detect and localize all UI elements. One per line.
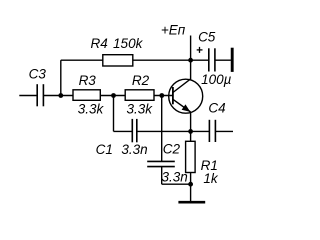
- wire C1 to node E (crosses base drop): [137, 130, 191, 132]
- wire C2 to node F: [162, 183, 191, 185]
- svg-text:1k: 1k: [203, 171, 219, 186]
- node D junction dot: [159, 93, 164, 98]
- wire input lead: [19, 95, 37, 97]
- svg-text:R4: R4: [90, 36, 107, 51]
- ground: [178, 201, 205, 204]
- wire C3 to node A and R3: [43, 95, 73, 97]
- wire collector to node B: [190, 60, 192, 79]
- wire R4 to node B: [133, 59, 191, 61]
- resistor R3: [73, 90, 100, 101]
- capacitor C4: [209, 120, 215, 142]
- node F junction dot: [188, 182, 193, 187]
- node B junction dot: [188, 58, 193, 63]
- resistor R4: [103, 55, 133, 66]
- wire C4 output lead: [215, 130, 233, 132]
- wire node F to ground: [190, 184, 192, 201]
- wire node B to C5: [191, 59, 209, 61]
- svg-text:3.3k: 3.3k: [78, 101, 105, 116]
- wire node A up to feedback rail: [60, 60, 62, 95]
- wire C5 to terminal bar: [215, 59, 231, 61]
- svg-text:3.3n: 3.3n: [161, 169, 187, 184]
- svg-text:150k: 150k: [113, 36, 144, 51]
- svg-text:C4: C4: [208, 101, 225, 116]
- svg-text:R3: R3: [79, 73, 97, 88]
- terminal bar at C5 output: [231, 48, 234, 72]
- svg-text:3.3n: 3.3n: [121, 142, 147, 157]
- wire C2 bottom down: [161, 167, 163, 185]
- wire rail to R4: [61, 59, 103, 61]
- wire node E to C4: [191, 130, 210, 132]
- transistor VT1: [169, 79, 203, 113]
- wire R3 to node C: [100, 95, 125, 97]
- wire to C1: [114, 130, 133, 132]
- svg-text:3.3k: 3.3k: [127, 101, 154, 116]
- capacitor C5: [209, 48, 215, 71]
- wire emitter to node E: [190, 112, 192, 131]
- wire node D down to C2: [161, 96, 163, 162]
- svg-text:C1: C1: [96, 142, 113, 157]
- svg-text:C3: C3: [29, 66, 47, 81]
- node E junction dot: [188, 129, 193, 134]
- svg-text:+Eп: +Eп: [161, 23, 186, 38]
- capacitor C2: [147, 161, 175, 166]
- resistor R2: [125, 90, 154, 101]
- svg-text:C2: C2: [163, 142, 181, 157]
- wire R1 to node F: [190, 173, 192, 185]
- capacitor C1: [132, 119, 137, 142]
- svg-text:C5: C5: [198, 30, 216, 45]
- resistor R1: [186, 141, 196, 172]
- capacitor C3: [37, 84, 43, 106]
- node A junction dot: [58, 93, 63, 98]
- wire R2 to base: [154, 95, 173, 97]
- svg-text:R2: R2: [132, 73, 150, 88]
- svg-text:100µ: 100µ: [201, 72, 232, 87]
- power +Ep lead: [190, 36, 192, 61]
- wire node E to R1: [190, 131, 192, 141]
- node C junction dot: [111, 93, 116, 98]
- plus polarity mark of C5: [197, 47, 203, 53]
- wire node C down: [113, 96, 115, 132]
